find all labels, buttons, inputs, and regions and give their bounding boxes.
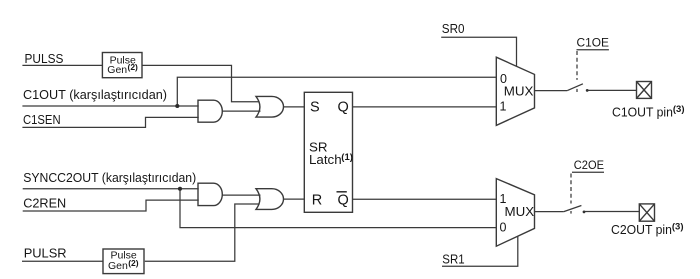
svg-text:C1OE: C1OE (577, 35, 609, 49)
svg-text:MUX: MUX (504, 83, 534, 98)
svg-text:C2OUT pin: C2OUT pin (611, 222, 672, 237)
svg-text:(3): (3) (673, 104, 685, 115)
svg-text:SR1: SR1 (442, 252, 464, 267)
svg-text:C1SEN: C1SEN (23, 112, 61, 127)
svg-text:Latch: Latch (309, 152, 342, 167)
svg-text:0: 0 (500, 72, 507, 86)
svg-text:PULSS: PULSS (25, 51, 64, 66)
svg-text:S: S (310, 100, 320, 116)
svg-text:Gen: Gen (107, 64, 127, 76)
svg-text:C2OE: C2OE (574, 158, 604, 172)
svg-text:MUX: MUX (505, 204, 535, 219)
svg-text:SR0: SR0 (442, 21, 465, 36)
svg-text:PULSR: PULSR (24, 245, 67, 260)
svg-text:1: 1 (500, 100, 507, 114)
svg-text:(2): (2) (128, 258, 139, 268)
svg-text:SYNCC2OUT (karşılaştırıcıdan): SYNCC2OUT (karşılaştırıcıdan) (23, 170, 196, 185)
svg-text:C1OUT (karşılaştırıcıdan): C1OUT (karşılaştırıcıdan) (23, 87, 167, 102)
svg-text:Gen: Gen (108, 260, 128, 272)
svg-text:Q: Q (338, 100, 349, 116)
svg-text:Q: Q (338, 192, 349, 208)
svg-text:1: 1 (500, 192, 507, 206)
svg-text:R: R (312, 192, 322, 208)
svg-text:(2): (2) (128, 62, 139, 72)
svg-text:(1): (1) (341, 152, 353, 163)
svg-text:C1OUT pin: C1OUT pin (612, 105, 673, 120)
svg-text:(3): (3) (672, 222, 684, 233)
svg-text:0: 0 (500, 221, 507, 235)
svg-text:C2REN: C2REN (23, 195, 66, 210)
